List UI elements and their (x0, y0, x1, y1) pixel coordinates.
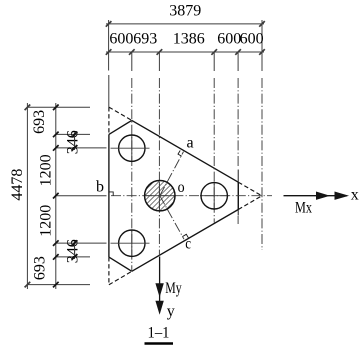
x axis line (284, 195, 348, 197)
top chain dimension line (106, 51, 264, 53)
left extension horizontals (27, 106, 90, 108)
extension stub (237, 52, 239, 71)
left dimension line 4478 (26, 103, 28, 289)
center vertical (158, 78, 160, 256)
tick (157, 49, 163, 55)
svg-text:1–1: 1–1 (148, 325, 170, 342)
svg-text:My: My (165, 280, 181, 297)
horizontal centerline (111, 195, 272, 197)
svg-text:x: x (351, 187, 359, 204)
aux ticks (72, 132, 78, 138)
tick (259, 21, 265, 27)
o to a (160, 152, 184, 196)
left edge (108, 134, 110, 257)
bottom-left chamfer (109, 257, 132, 271)
tick (25, 105, 31, 111)
svg-text:600: 600 (217, 31, 241, 48)
svg-text:693: 693 (31, 110, 48, 134)
bottom edge (132, 210, 239, 272)
extension stub (158, 52, 160, 71)
pile circle bottom-left (119, 230, 145, 256)
tick (129, 49, 135, 55)
svg-text:Mx: Mx (295, 199, 312, 216)
y axis arrowhead 2 (155, 301, 163, 315)
svg-text:600: 600 (240, 31, 264, 48)
extension line right end (261, 20, 263, 71)
extension stub (131, 52, 133, 71)
chamfer centerline (237, 78, 239, 167)
svg-text:b: b (96, 179, 104, 196)
chamfer centerline solid part (237, 170, 239, 216)
top edge (132, 120, 239, 182)
pile circle top-left (119, 135, 145, 161)
pile circle cross horizontals (111, 148, 150, 243)
centerline solid overlays through circles (132, 135, 229, 257)
extension stub (213, 52, 215, 71)
svg-text:693: 693 (31, 256, 48, 280)
svg-text:1200: 1200 (38, 154, 55, 186)
svg-text:600: 600 (109, 31, 133, 48)
svg-text:y: y (167, 303, 175, 320)
perpendicular mark at a (178, 151, 182, 157)
left chain dimension line (55, 103, 57, 289)
svg-text:693: 693 (133, 31, 157, 48)
pile circle right (201, 183, 227, 209)
right chamfer (237, 182, 239, 209)
svg-text:o: o (178, 179, 185, 196)
aux 346 lines redraw on top (72, 132, 78, 260)
tick (106, 21, 112, 27)
right pile centerline (213, 78, 215, 223)
tick (235, 49, 241, 55)
svg-text:c: c (185, 236, 191, 253)
tick (259, 49, 265, 55)
top dimension line 3879 (106, 23, 264, 25)
tick (25, 282, 31, 288)
svg-text:1200: 1200 (38, 205, 55, 237)
svg-text:3879: 3879 (169, 3, 201, 20)
left piles centerline (131, 78, 133, 271)
y axis arrowhead 1 (155, 283, 163, 297)
o to c (160, 196, 184, 240)
left chain ticks (53, 105, 77, 288)
dashed full triangle (109, 107, 262, 285)
x axis arrowhead 1 (316, 192, 330, 200)
title underline (145, 342, 174, 345)
svg-text:a: a (187, 134, 194, 151)
perpendicular mark at c (182, 234, 188, 238)
column circle hatched (126, 170, 194, 230)
perpendicular mark at b (109, 192, 113, 196)
tick (106, 49, 112, 55)
aux 346 dimension line top (74, 132, 76, 150)
aux 346 dimension line bottom (74, 241, 76, 259)
pile circles (119, 135, 228, 256)
svg-text:1386: 1386 (173, 31, 205, 48)
extension line left end (108, 20, 110, 71)
x axis arrowhead 2 (335, 192, 350, 200)
tick (211, 49, 217, 55)
svg-text:4478: 4478 (9, 169, 26, 201)
top-left chamfer (109, 120, 132, 134)
right vertex centerline (261, 78, 263, 250)
centerlines dash-dot (111, 78, 272, 271)
hexagon pile cap solid outline (109, 120, 238, 271)
y axis line (159, 257, 161, 313)
